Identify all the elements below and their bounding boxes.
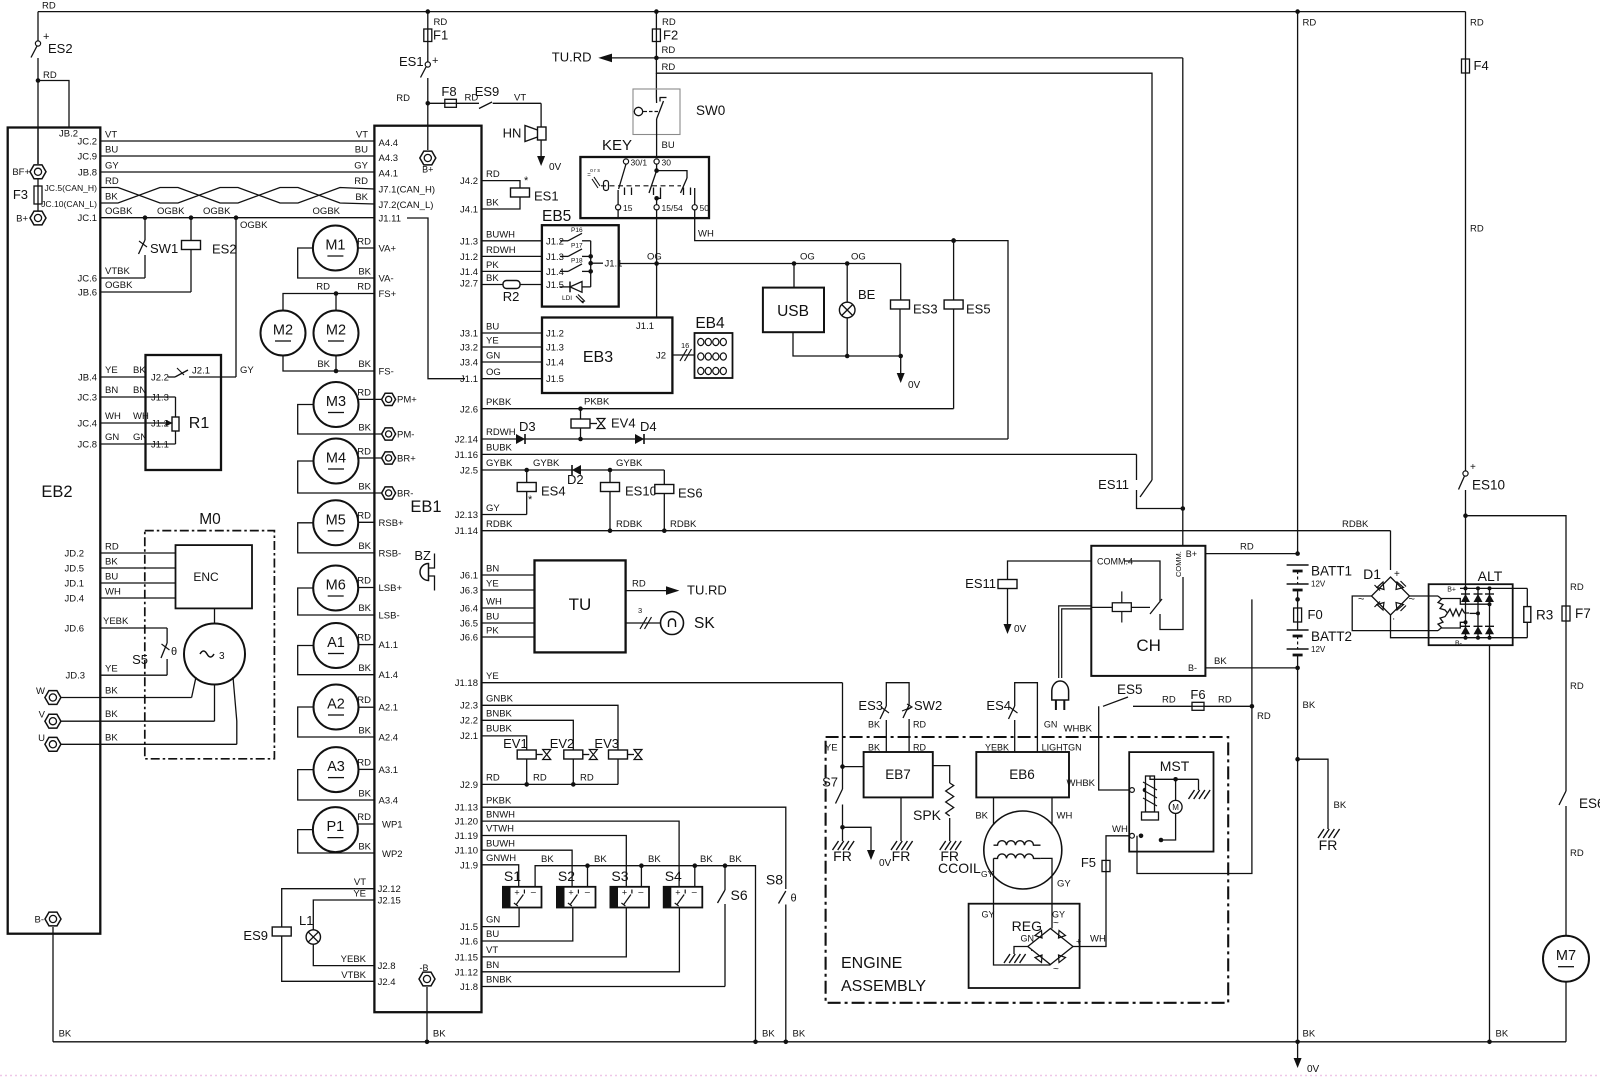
svg-text:P1: P1 [327,819,345,835]
wire TU.RD feed (left arrow) [612,57,1183,59]
svg-text:VT: VT [354,877,366,888]
svg-text:GN: GN [1044,720,1058,730]
svg-text:F4: F4 [1474,58,1489,73]
ALT phase taps [1441,599,1490,605]
wire ENC to motor [214,608,216,623]
svg-text:–: – [531,887,536,897]
svg-text:+: + [675,888,680,898]
svg-text:RD: RD [1470,224,1484,235]
wire F8 to ES9 [456,102,479,104]
wire USB to 0V [793,332,901,356]
svg-text:BK: BK [868,720,880,730]
wire BK from ES1 coil [482,197,521,209]
bolt terminal B+ (EB1) [420,151,436,165]
wire ES4 bracket [1015,683,1038,752]
svg-text:JC.9: JC.9 [77,152,97,163]
wire GYBK net [482,469,665,471]
wire PK to TU [482,636,535,638]
svg-text:RD: RD [105,542,119,553]
wire inside EB2 to BF+ [37,128,39,165]
svg-text:R3: R3 [1536,608,1553,623]
svg-text:ES2: ES2 [212,242,237,257]
wire BU from S2 [482,908,573,942]
svg-text:M2: M2 [326,323,346,339]
svg-text:J3.4: J3.4 [460,358,478,369]
svg-text:J2.2: J2.2 [460,716,478,727]
KEY terminal 50 [692,205,697,210]
svg-text:A3.1: A3.1 [379,765,399,776]
svg-text:BE: BE [858,287,876,302]
KEY terminal 30 [654,159,659,164]
wire GNBK to EV3 [482,705,619,750]
svg-text:USB: USB [777,303,809,320]
svg-text:J1.6: J1.6 [460,937,478,948]
svg-text:YE: YE [105,664,118,675]
svg-text:F3: F3 [13,187,28,202]
svg-text:VT: VT [356,130,368,141]
svg-text:RD: RD [357,633,371,644]
svg-text:RD: RD [1570,848,1584,859]
wire BK bus over relays [535,866,755,1042]
svg-text:BUBK: BUBK [486,724,513,735]
relay coil ES4 [517,483,536,492]
wire down to horn [540,103,542,127]
svg-text:RD: RD [913,743,926,753]
svg-text:BK: BK [793,1029,806,1040]
bolt terminal B+ [30,211,46,225]
svg-text:BZ: BZ [414,548,431,563]
wire YE to L1 [313,900,374,930]
wire to F8 [428,102,445,104]
svg-text:PM+: PM+ [397,395,417,406]
solenoid valve coil EV1 [517,750,536,759]
switch S8 (thermal) [779,891,786,904]
wire GN to EB3 [482,361,543,363]
motor M4 [314,439,359,484]
svg-text:o r s: o r s [590,168,600,174]
svg-text:WH: WH [1057,811,1073,822]
svg-text:LSB+: LSB+ [379,583,403,594]
wire VT from S3 [482,908,627,957]
svg-text:WH: WH [1112,824,1128,835]
svg-text:J1.3: J1.3 [151,393,169,404]
svg-text:BU: BU [486,612,499,623]
wire BK to R2 [482,284,504,286]
wire top to B+ bolt [427,126,429,150]
svg-text:J1.8: J1.8 [460,982,478,993]
starter motor box MST [1129,752,1213,852]
ground 0V arrow (S7) [870,840,872,851]
svg-text:θ: θ [171,646,177,658]
wire down to BF+ bolt [37,81,39,165]
wire M7 to 0V bus [1565,982,1567,1042]
svg-text:JD.4: JD.4 [64,594,84,605]
svg-text:RD: RD [1570,681,1584,692]
svg-text:YEBK: YEBK [103,616,129,627]
relay coil ES6 [655,485,674,494]
battery BATT2 [1287,629,1309,631]
motor M1 [313,226,358,271]
bolt terminal W [45,691,61,705]
wire SW0 to KEY 30 [656,135,658,158]
wire VTWH to S3 [482,836,627,887]
svg-text:WHBK: WHBK [1067,778,1096,789]
switch ES10 [1463,471,1468,476]
svg-text:S1: S1 [504,868,521,884]
diode D2 [572,465,581,475]
svg-text:RD: RD [42,1,56,12]
svg-text:BK: BK [105,733,118,744]
switch SW2 contact [903,705,909,718]
wire ES4 to EB6 [1014,720,1016,752]
svg-text:J2.7: J2.7 [460,279,478,290]
resistor R2 [503,281,520,289]
svg-text:J1.20: J1.20 [455,817,478,828]
svg-text:EB2: EB2 [41,483,72,501]
svg-text:R1: R1 [189,415,210,432]
svg-text:M5: M5 [326,512,346,528]
svg-text:F7: F7 [1575,606,1591,621]
svg-text:J1.3: J1.3 [546,343,564,354]
svg-text:EV1: EV1 [503,736,528,751]
svg-text:A2: A2 [327,697,345,713]
charge module box EB6 [976,752,1069,797]
svg-text:BN: BN [486,564,499,575]
bolt terminal U [45,737,61,751]
svg-text:RD: RD [1303,18,1317,29]
svg-text:A1: A1 [327,635,345,651]
svg-text:TU.RD: TU.RD [552,50,592,65]
svg-text:ES5: ES5 [966,302,991,317]
svg-text:RD: RD [357,576,371,587]
valve symbol EV4 [597,419,605,429]
svg-text:BK: BK [1334,800,1347,811]
svg-text:J1.18: J1.18 [455,678,478,689]
wire BUBK to EV1 [482,736,527,750]
wire ES3 to EB7 [885,720,887,752]
svg-text:J1.16: J1.16 [455,450,478,461]
svg-text:PK: PK [486,626,499,637]
svg-text:PK: PK [486,260,499,271]
svg-text:JC.3: JC.3 [77,393,97,404]
wire VT to ES9 coil [282,889,375,927]
svg-text:WH: WH [105,587,121,598]
ground 0V arrow (main) [1297,1042,1299,1059]
svg-text:J7.2(CAN_L): J7.2(CAN_L) [379,200,434,211]
svg-text:LDI: LDI [562,295,572,302]
svg-text:ES11: ES11 [965,576,996,591]
svg-text:JD.6: JD.6 [64,624,84,635]
svg-text:15: 15 [623,203,633,213]
svg-text:VA-: VA- [379,274,394,285]
svg-text:OGBK: OGBK [105,280,133,291]
svg-text:P16: P16 [571,227,583,234]
svg-text:BU: BU [355,145,368,156]
svg-text:GNBK: GNBK [486,694,514,705]
wire WH KEY50 over to ES11 area [951,238,956,243]
svg-text:+: + [622,888,627,898]
svg-text:GN: GN [486,915,500,926]
wire BK 0V bottom bus [53,1041,1566,1043]
svg-text:GY: GY [981,869,994,879]
wire BE to 0V [846,318,848,356]
switch ES3 contact [880,706,886,719]
wire BUWH to EB5 [482,240,542,242]
wire OG to USB [793,264,795,288]
svg-text:+: + [1076,937,1081,947]
wire WH JC.4-J1.2 [100,422,166,424]
wire RD branch to F7 [1466,516,1567,606]
charge coil CCOIL [984,811,1062,889]
svg-text:BK: BK [317,359,330,370]
diode D4 [635,434,644,444]
svg-text:BK: BK [358,267,371,278]
wire SW1 to JC.6 [144,255,146,278]
wire relay BK stub [694,866,696,887]
svg-text:~: ~ [1409,594,1415,606]
svg-text:12V: 12V [1311,645,1326,654]
fuse F4 [1462,59,1470,73]
svg-text:JD.3: JD.3 [65,671,85,682]
svg-text:–: – [692,887,697,897]
battery BATT1 [1287,564,1309,566]
svg-text:J2: J2 [656,351,666,362]
wire BK battery minus down [1297,655,1299,1042]
wire REG WH to F5 [1073,872,1106,947]
ground (REG) [1004,954,1026,963]
svg-text:WH: WH [105,411,121,422]
wire COMM into CH [1182,509,1184,546]
switch ES9 contact [479,102,492,109]
svg-text:LSB-: LSB- [379,611,400,622]
svg-text:BK: BK [105,686,118,697]
svg-text:R2: R2 [503,289,520,304]
svg-text:ES9: ES9 [243,928,268,943]
svg-text:ES10: ES10 [625,484,657,499]
svg-text:ES1: ES1 [534,189,559,204]
switch SW1 [139,240,146,254]
svg-text:J1.4: J1.4 [546,267,564,278]
wire RD EV common [482,783,619,785]
KEY terminal 15/54 [654,205,659,210]
svg-text:B+: B+ [1186,549,1197,559]
svg-text:GY: GY [486,503,500,514]
alternator box ALT [1429,584,1513,645]
wire to EB7 left pin [843,766,864,768]
svg-text:EB6: EB6 [1009,767,1035,782]
switch ES6 contact [1559,791,1566,805]
wire TU.RD line down to CH COMM [1182,58,1184,509]
wire RD to F6 [1133,705,1192,707]
svg-text:OG: OG [647,252,662,263]
switch ES1 (main) [425,62,430,67]
svg-text:YEBK: YEBK [985,743,1009,753]
wire to F1 [427,12,429,29]
svg-text:BATT1: BATT1 [1311,564,1352,579]
svg-text:BK: BK [358,842,371,853]
svg-text:WH: WH [486,597,502,608]
svg-text:S5: S5 [132,652,148,667]
wire YEBK JD.6 to S5 [100,627,167,629]
ground FR (battery) [1318,829,1340,838]
svg-text:RD: RD [357,237,371,248]
svg-text:RD: RD [1257,711,1271,722]
svg-text:S7: S7 [822,775,838,790]
wire KEY 15/54 to OG net [656,210,658,264]
svg-text:J2.9: J2.9 [460,780,478,791]
svg-text:D4: D4 [640,419,657,434]
wire OGBK JC.1-J1.11 [100,217,374,219]
svg-text:WP2: WP2 [382,849,403,860]
svg-text:GY: GY [982,910,995,920]
svg-text:J1.5: J1.5 [460,922,478,933]
svg-text:BK: BK [358,603,371,614]
wire BK U phase [61,743,237,745]
svg-text:YE: YE [825,743,838,754]
svg-text:YE: YE [486,671,499,682]
wire GYBK to ES6 coil [663,470,665,485]
svg-text:COMM.: COMM. [1174,551,1183,577]
svg-text:ASSEMBLY: ASSEMBLY [841,978,926,995]
svg-text:J2.5: J2.5 [460,466,478,477]
KEY switch 30/1-15 [619,164,626,189]
svg-text:BK: BK [59,1029,72,1040]
wire WH JD.4 [100,597,175,599]
wire EB1 internal J1.11 to J1.1 [407,218,465,379]
svg-text:0V: 0V [879,858,892,869]
fuse F6 [1192,702,1204,710]
wire BN from S4 [482,908,680,972]
wire BU to EB3 [482,332,543,334]
motor 3-phase circle [184,624,245,685]
svg-text:RD: RD [662,45,676,56]
svg-text:D2: D2 [567,472,584,487]
svg-text:M1: M1 [325,238,345,254]
svg-text:0V: 0V [1307,1064,1320,1075]
ignition module box EB7 [864,752,933,797]
svg-text:J1.19: J1.19 [455,831,478,842]
svg-text:EB3: EB3 [583,349,613,366]
svg-text:J6.4: J6.4 [460,604,478,615]
svg-text:OG: OG [851,252,866,263]
svg-text:J6.5: J6.5 [460,619,478,630]
wire YE JD.3 [100,674,167,676]
wire S7 to 0V arrow [843,827,872,840]
svg-text:J1.1: J1.1 [636,321,654,332]
svg-text:M4: M4 [326,451,346,467]
svg-text:RD: RD [434,17,448,28]
ALT stator windings [1438,596,1448,613]
wire F4 feed down [1465,12,1467,59]
svg-text:BUBK: BUBK [486,443,513,454]
svg-text:RD: RD [105,176,119,187]
svg-text:J1.4: J1.4 [546,358,564,369]
svg-text:GY: GY [240,365,254,376]
svg-text:MST: MST [1160,758,1190,774]
ground FR (SPK) [940,841,962,850]
svg-text:RD: RD [1218,695,1232,706]
wire F3 to B+ [37,204,39,211]
svg-text:BK: BK [433,1029,446,1040]
svg-text:BNBK: BNBK [486,975,513,986]
mains plug of CH [1059,606,1092,678]
svg-text:JD.2: JD.2 [64,549,84,560]
svg-text:RDWH: RDWH [486,427,516,438]
svg-text:BATT2: BATT2 [1311,629,1352,644]
svg-text:ES1: ES1 [399,54,424,69]
wire MST internal top [1150,776,1199,779]
svg-text:RD: RD [1240,542,1254,553]
wire to ES2 [37,12,39,41]
svg-text:U: U [38,733,45,744]
svg-text:*: * [524,175,529,187]
svg-text:J1.12: J1.12 [455,967,478,978]
wire VT JC.2-A4.4 [100,140,374,142]
svg-text:ES3: ES3 [858,698,883,713]
svg-text:BN: BN [486,960,499,971]
svg-text:RD: RD [632,579,646,590]
fuse F0 [1294,608,1302,622]
svg-text:B-: B- [1188,663,1197,673]
svg-text:θ: θ [791,893,797,905]
svg-text:OGBK: OGBK [203,206,231,217]
control box EB5 [542,225,619,306]
svg-text:BK: BK [594,854,607,865]
switch ES2 (battery isolator) [35,41,40,46]
svg-text:B+: B+ [16,214,28,225]
svg-text:RD: RD [1470,18,1484,29]
wire to ES2 coil [190,218,192,241]
ground FR (S7) [833,841,855,850]
switch S6 [724,866,726,890]
wire branch to EB2 JB.2 [38,81,69,128]
svg-text:OGBK: OGBK [105,206,133,217]
wire ES3 coil down [899,309,901,356]
svg-text:A2.1: A2.1 [379,703,399,714]
svg-text:RSB+: RSB+ [379,518,405,529]
svg-text:RDBK: RDBK [486,519,513,530]
svg-text:30/1: 30/1 [631,158,648,168]
svg-text:FS+: FS+ [379,289,397,300]
wire BATT1 to F0 [1297,590,1299,608]
svg-text:CCOIL: CCOIL [938,860,981,876]
wire OGBK JB.6 [100,291,191,293]
svg-text:BK: BK [358,482,371,493]
wire BN JC.3-J1.3 [100,396,175,398]
svg-text:P18: P18 [571,257,583,264]
svg-text:JB.2: JB.2 [59,129,78,140]
wire relay BK stub [640,866,642,887]
svg-text:ENC: ENC [193,570,219,584]
svg-text:J1.4: J1.4 [460,267,478,278]
svg-text:YE: YE [486,579,499,590]
svg-text:B-: B- [35,915,45,926]
fuse F8 [445,99,457,107]
pin MST WHBK [1130,788,1135,793]
wire BUBK to ES11 switch [1136,454,1138,480]
svg-text:J2.6: J2.6 [460,405,478,416]
wire RD to ES1 coil [482,181,521,188]
wire D1 minus / ALT B- row [1391,615,1528,638]
svg-text:+: + [1470,462,1476,473]
wire TU to SK [626,622,661,624]
svg-text:A4.1: A4.1 [379,169,399,180]
svg-text:B+: B+ [1447,587,1456,594]
svg-text:SW0: SW0 [696,103,725,118]
svg-text:J1.2: J1.2 [546,329,564,340]
svg-text:JC.10(CAN_L): JC.10(CAN_L) [41,199,97,209]
svg-text:J7.1(CAN_H): J7.1(CAN_H) [379,185,436,196]
